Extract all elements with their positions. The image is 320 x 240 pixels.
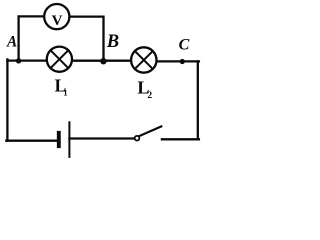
svg-text:V: V — [52, 13, 63, 29]
battery B1 long thin plate (positive) — [68, 121, 70, 158]
node C junction dot — [180, 59, 185, 64]
switch S1 lever — [139, 126, 161, 136]
lamp L2 cross — [135, 51, 153, 69]
svg-text:C: C — [179, 37, 190, 54]
wire: bottom left to battery — [6, 140, 57, 142]
wire: main segment L2 to right corner through C — [157, 60, 199, 62]
wire: voltmeter branch right (V across and down to B) — [71, 17, 104, 61]
svg-text:1: 1 — [63, 88, 67, 98]
battery B1 short thick plate (negative) — [57, 131, 61, 148]
svg-text:B: B — [106, 32, 119, 52]
wire: switch right contact to right rail — [162, 138, 199, 140]
svg-text:A: A — [6, 34, 17, 51]
lamp L2 circle — [131, 47, 156, 72]
lamp L1 circle — [47, 47, 72, 72]
voltmeter U1 circle — [44, 4, 69, 29]
switch S1 pivot circle — [135, 136, 140, 141]
wire: voltmeter branch left (A up and across to V) — [19, 16, 44, 60]
lamp L1 cross — [51, 50, 69, 68]
node B junction dot — [100, 58, 106, 64]
svg-text:2: 2 — [147, 91, 152, 101]
wire: battery to switch — [69, 137, 134, 139]
wire: main top segment A-side (left rail to L1) — [7, 59, 46, 61]
node A junction dot — [16, 58, 21, 63]
wire: main segment L1 to L2 through B — [72, 60, 130, 62]
wire: left rail — [6, 59, 8, 140]
wire: right rail — [197, 61, 199, 139]
